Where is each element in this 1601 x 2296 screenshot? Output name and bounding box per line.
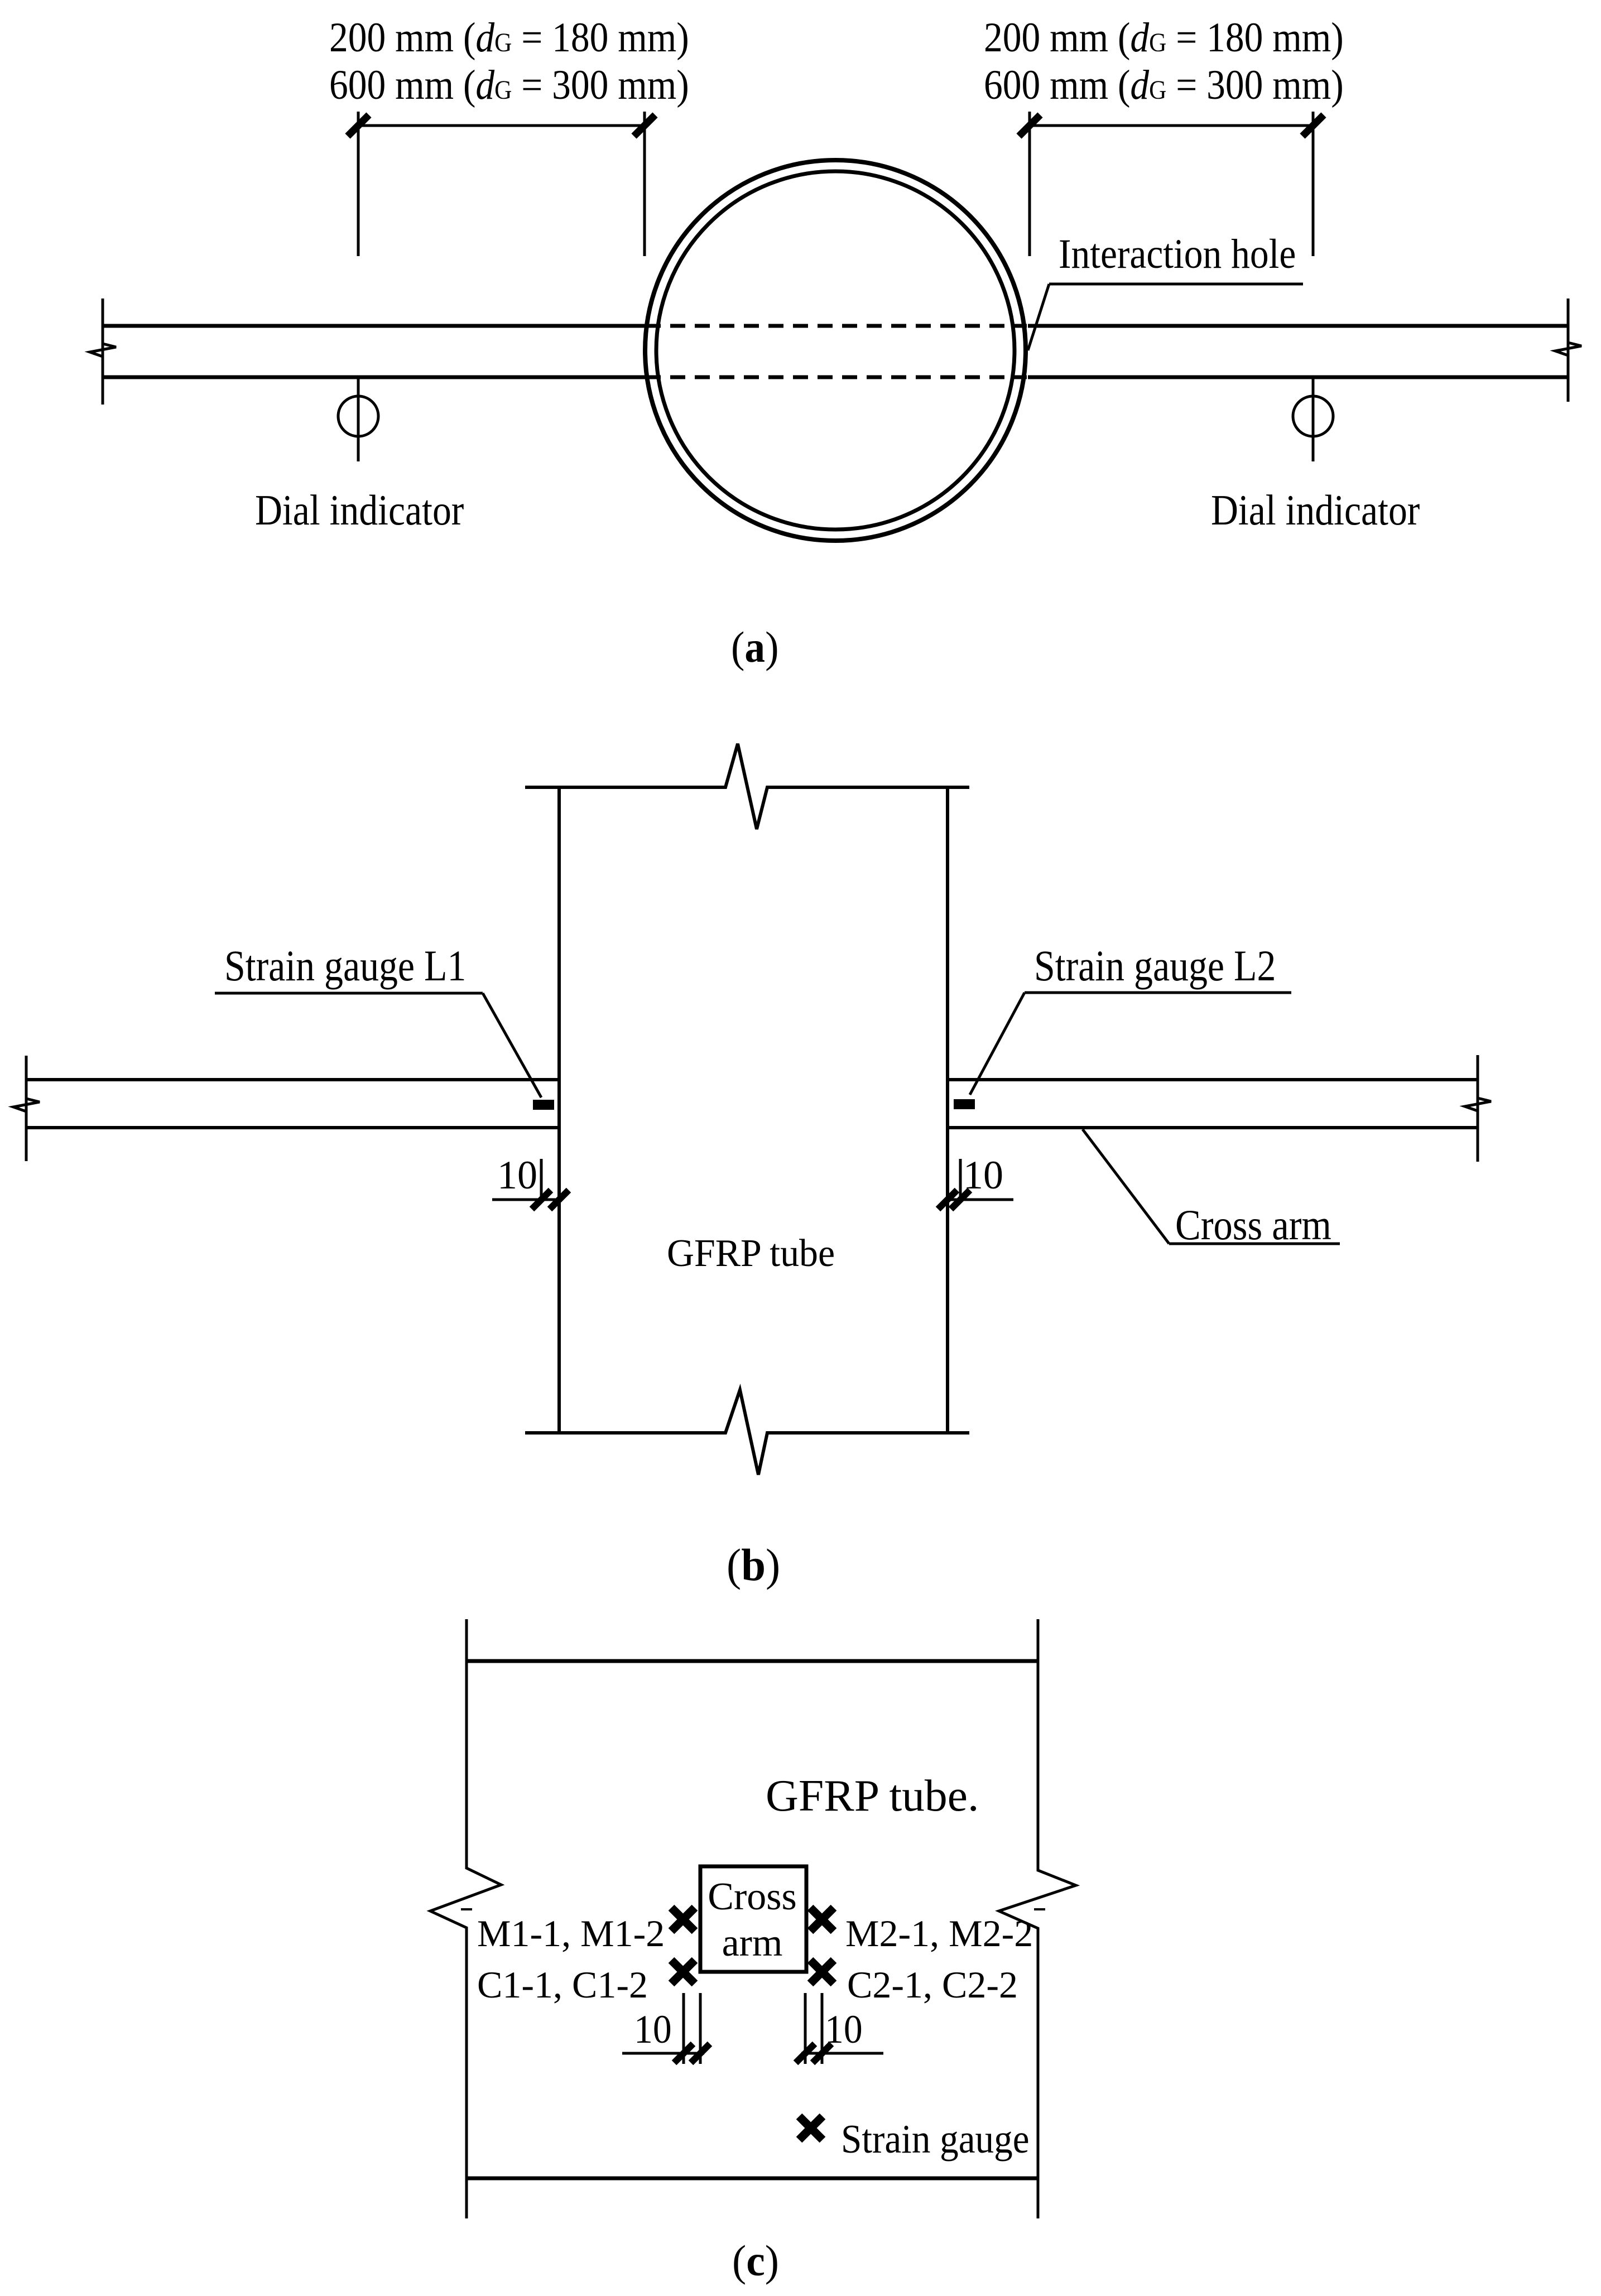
svg-text:C2-1, C2-2: C2-1, C2-2	[847, 1963, 1018, 2006]
svg-text:10: 10	[963, 1153, 1003, 1197]
svg-text:M1-1, M1-2: M1-1, M1-2	[477, 1912, 665, 1955]
svg-text:C1-1, C1-2: C1-1, C1-2	[477, 1963, 648, 2006]
svg-text:Strain gauge: Strain gauge	[841, 2116, 1030, 2162]
svg-text:arm: arm	[722, 1922, 783, 1965]
svg-text:(a): (a)	[731, 624, 779, 672]
svg-text:Dial indicator: Dial indicator	[255, 486, 464, 534]
svg-text:10: 10	[634, 2008, 672, 2052]
svg-text:GFRP tube.: GFRP tube.	[766, 1772, 979, 1821]
svg-text:Cross: Cross	[708, 1875, 796, 1918]
svg-text:Strain gauge L1: Strain gauge L1	[224, 942, 466, 990]
svg-text:(b): (b)	[727, 1540, 780, 1591]
svg-text:Dial indicator: Dial indicator	[1211, 486, 1420, 534]
svg-text:Interaction hole: Interaction hole	[1059, 231, 1296, 277]
svg-text:Strain gauge L2: Strain gauge L2	[1034, 942, 1276, 990]
svg-text:Cross arm: Cross arm	[1175, 1201, 1331, 1249]
svg-text:(c): (c)	[732, 2237, 779, 2285]
svg-text:GFRP tube: GFRP tube	[667, 1231, 835, 1274]
svg-text:10: 10	[497, 1153, 537, 1197]
svg-text:M2-1, M2-2: M2-1, M2-2	[845, 1912, 1033, 1955]
svg-text:10: 10	[825, 2008, 863, 2052]
